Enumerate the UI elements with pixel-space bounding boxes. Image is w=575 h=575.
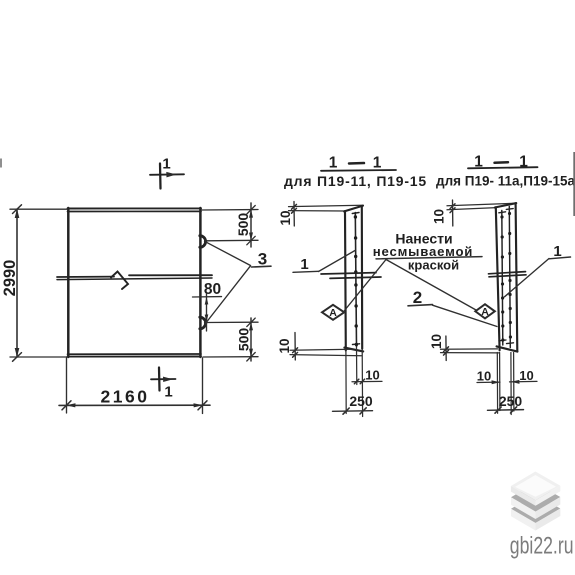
svg-text:10: 10 <box>365 368 379 383</box>
dim 500 bottom <box>203 318 258 361</box>
svg-text:10: 10 <box>277 338 292 353</box>
svg-text:1: 1 <box>300 256 308 273</box>
section mark 1 bottom <box>151 368 176 401</box>
lifting hook top <box>200 236 208 248</box>
dim 2990 <box>1 209 67 358</box>
mark A diamond (mid) <box>322 305 344 320</box>
panel joint break line <box>57 272 212 290</box>
dim 2160 <box>59 358 210 414</box>
dim 10 bottom-left (right) <box>429 334 499 361</box>
scan edge artifact right <box>573 152 575 216</box>
rebar mesh (mid) <box>352 213 359 347</box>
svg-text:А: А <box>481 306 489 318</box>
dim 80 <box>193 281 222 331</box>
svg-text:А: А <box>329 307 337 319</box>
svg-text:1: 1 <box>164 384 172 401</box>
svg-text:10: 10 <box>477 369 491 384</box>
dim 10 top-left (mid) <box>278 202 363 227</box>
svg-text:10: 10 <box>278 210 293 225</box>
logo slab stack <box>511 472 560 531</box>
label 1 (right) with leader <box>505 243 571 297</box>
dim tick slashes <box>13 205 256 410</box>
svg-text:2: 2 <box>413 288 422 307</box>
svg-text:250: 250 <box>499 393 523 409</box>
svg-text:250: 250 <box>349 393 373 409</box>
lifting hook bottom <box>200 317 208 329</box>
svg-text:2990: 2990 <box>1 260 19 297</box>
indelible paint note <box>373 231 482 273</box>
svg-text:10: 10 <box>519 368 533 383</box>
svg-text:10: 10 <box>432 209 447 224</box>
bottom dims (right): ext lines, 10 10, 250 <box>477 353 537 415</box>
svg-text:500: 500 <box>235 213 251 237</box>
scan edge artifact left <box>0 159 2 168</box>
panel section outline (right) <box>495 203 518 352</box>
dim 500 top <box>202 203 258 247</box>
label 1 (mid) with leader <box>293 251 355 274</box>
svg-text:для П19- 11а,П19-15а: для П19- 11а,П19-15а <box>436 174 575 189</box>
dim 10 top-left (right) <box>432 200 517 226</box>
break marks (mid) <box>321 273 381 279</box>
section title 1-1 (right) <box>468 154 538 171</box>
panel section outline (mid) <box>344 206 363 352</box>
panel outline <box>68 208 202 357</box>
section mark 1 top <box>150 156 184 189</box>
svg-text:1: 1 <box>373 155 382 172</box>
svg-text:1: 1 <box>329 155 338 172</box>
svg-text:10: 10 <box>429 334 444 349</box>
svg-text:gbi22.ru: gbi22.ru <box>510 532 574 560</box>
svg-text:для П19-11, П19-15: для П19-11, П19-15 <box>284 173 427 189</box>
bottom dims (mid): ext lines, 10, 250 <box>333 347 383 417</box>
label 2 with leader <box>408 288 497 327</box>
svg-text:500: 500 <box>236 328 252 352</box>
dim 10 bottom-left (mid) <box>277 333 362 361</box>
svg-text:2160: 2160 <box>101 387 150 407</box>
rebar meshes (right) <box>499 207 514 348</box>
paint leaders to A marks <box>345 260 477 311</box>
break marks (right) <box>489 272 527 277</box>
mark A diamond (right) <box>475 304 495 318</box>
section title 1-1 (mid) <box>321 155 396 172</box>
label 3 with leaders <box>207 242 272 321</box>
svg-text:1: 1 <box>162 156 170 173</box>
svg-text:краской: краской <box>408 258 459 273</box>
